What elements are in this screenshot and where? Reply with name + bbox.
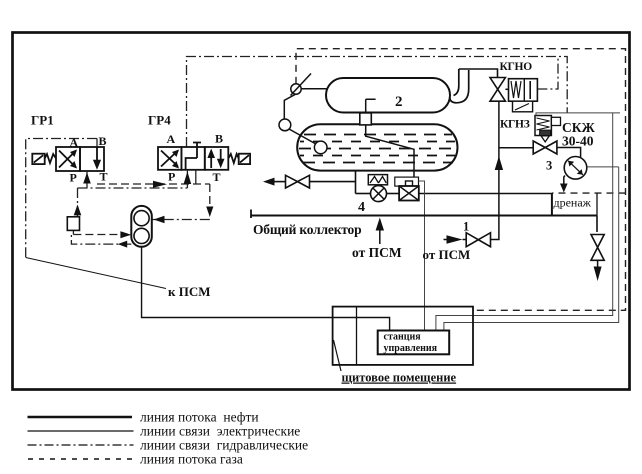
svg-text:линия потока нефти: линия потока нефти — [140, 410, 259, 425]
svg-text:дренаж: дренаж — [554, 196, 592, 210]
svg-text:от ПСМ: от ПСМ — [352, 245, 402, 260]
svg-text:T: T — [213, 170, 221, 184]
svg-text:4: 4 — [358, 200, 365, 215]
svg-text:КГНЗ: КГНЗ — [500, 119, 530, 131]
svg-text:КГНО: КГНО — [500, 61, 533, 73]
svg-text:линии связи гидравлические: линии связи гидравлические — [140, 438, 308, 453]
svg-text:Общий коллектор: Общий коллектор — [253, 222, 361, 237]
svg-text:A: A — [70, 136, 79, 150]
svg-text:B: B — [99, 134, 107, 148]
svg-text:линия потока газа: линия потока газа — [140, 452, 243, 467]
svg-text:30-40: 30-40 — [562, 134, 594, 149]
svg-text:от ПСМ: от ПСМ — [423, 247, 471, 262]
svg-text:ГР4: ГР4 — [148, 113, 171, 128]
svg-text:B: B — [215, 131, 223, 145]
svg-text:ГР1: ГР1 — [31, 113, 54, 128]
svg-text:линии связи электрические: линии связи электрические — [140, 424, 300, 439]
svg-text:P: P — [70, 171, 77, 185]
svg-text:A: A — [167, 132, 176, 146]
svg-text:P: P — [168, 170, 175, 184]
svg-text:щитовое помещение: щитовое помещение — [342, 371, 457, 385]
svg-text:к ПСМ: к ПСМ — [168, 284, 211, 299]
svg-text:2: 2 — [395, 94, 403, 110]
svg-text:станция: станция — [384, 332, 422, 343]
svg-text:T: T — [100, 170, 108, 184]
svg-text:3: 3 — [546, 159, 552, 173]
svg-text:1: 1 — [463, 220, 469, 234]
svg-text:управления: управления — [384, 343, 438, 354]
